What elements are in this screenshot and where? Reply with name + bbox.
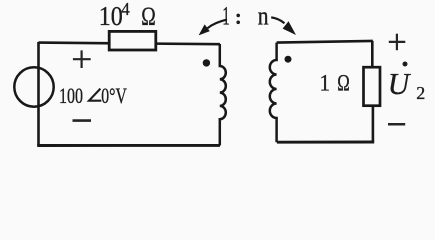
dot (secondary polarity) bbox=[285, 56, 292, 63]
label 1 : n bbox=[222, 2, 268, 31]
label - (output) bbox=[388, 123, 405, 126]
wire: left loop bottom bbox=[37, 144, 220, 147]
resistor R1 box bbox=[109, 31, 156, 50]
dot (primary polarity) bbox=[203, 59, 210, 66]
label 1 ohm bbox=[320, 70, 350, 95]
svg-text:2: 2 bbox=[416, 83, 425, 103]
resistor R2 box bbox=[364, 67, 381, 106]
wire: right loop bottom bbox=[277, 141, 374, 144]
svg-text:n: n bbox=[258, 2, 269, 31]
label 100 angle 0 V bbox=[59, 83, 127, 108]
arrow to secondary bbox=[271, 17, 296, 35]
inductor L1 (primary coil) bbox=[220, 44, 226, 145]
svg-text:10: 10 bbox=[99, 1, 123, 31]
svg-text:Ω: Ω bbox=[337, 70, 350, 95]
svg-text:0°V: 0°V bbox=[101, 83, 127, 108]
svg-text:4: 4 bbox=[121, 0, 130, 19]
label 10^4 ohm bbox=[99, 0, 156, 31]
wire: right loop top bbox=[277, 41, 373, 43]
svg-text:Ω: Ω bbox=[141, 2, 156, 31]
label U2 phasor bbox=[388, 62, 426, 104]
source Us circle bbox=[14, 67, 53, 106]
svg-text:U: U bbox=[388, 66, 412, 101]
wire: right loop right vertical top segment bbox=[371, 41, 374, 67]
wire: left loop top bbox=[39, 43, 221, 45]
wire: right loop right vertical bottom segment bbox=[372, 106, 375, 142]
inductor L2 (secondary coil) bbox=[270, 43, 277, 143]
label - (source) bbox=[73, 119, 92, 122]
svg-text:100: 100 bbox=[59, 83, 83, 108]
svg-text:1: 1 bbox=[222, 2, 230, 31]
label + (output) bbox=[389, 34, 406, 51]
angle symbol bbox=[89, 89, 101, 101]
label + (source) bbox=[73, 50, 91, 68]
wire: left loop left vertical bbox=[37, 42, 40, 146]
svg-text:1: 1 bbox=[320, 70, 331, 95]
arrow to primary bbox=[199, 20, 227, 36]
